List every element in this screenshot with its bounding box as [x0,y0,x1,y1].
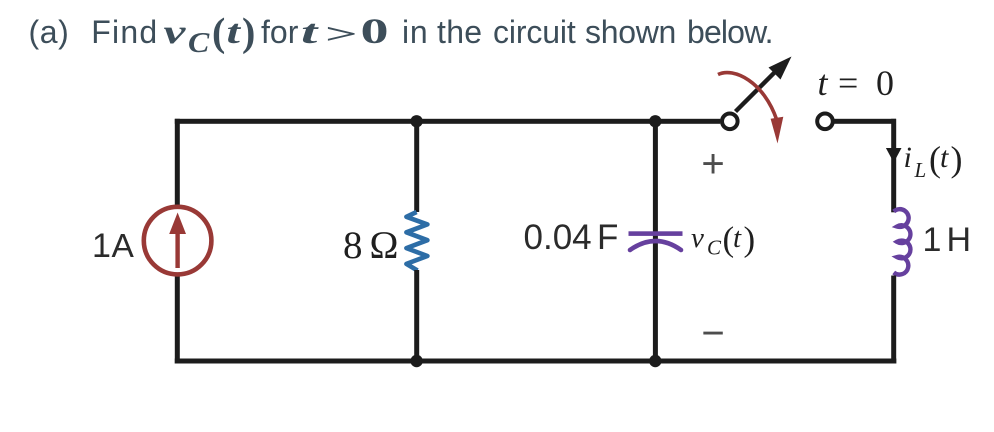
wire: left vertical lower (current source to bottom wire) [175,276,180,364]
svg-text:−: − [701,312,724,356]
junction dot bottom-left (resistor bottom) [410,355,422,367]
inductor L coil [894,209,911,274]
svg-text:t: t [301,13,319,51]
svg-text:1A: 1A [92,227,135,265]
switch lever [736,68,780,112]
current source I1 circle [144,207,212,275]
wire: left vertical upper (top wire to current source) [175,119,180,206]
junction dot top-right (capacitor top) [649,115,661,127]
svg-text:t: t [227,14,242,51]
switch right terminal circle [817,114,833,130]
wire: resistor branch top [414,121,419,212]
junction dot bottom-right (capacitor bottom) [649,355,661,367]
wire: bottom horizontal [175,359,897,364]
svg-text:0: 0 [361,11,389,51]
svg-text:): ) [242,10,255,55]
switch red closing arc [718,73,777,120]
switch lever arrowhead [769,57,792,80]
wire: right branch top horizontal [833,119,896,124]
svg-text:>: > [325,18,358,49]
wire: top horizontal [175,119,721,124]
svg-text:8Ω: 8Ω [343,224,399,267]
svg-text:+: + [701,142,724,186]
resistor R 8ohm zigzag [406,212,427,271]
svg-text:(: ( [212,10,225,55]
wire: resistor branch bottom [414,270,419,362]
title text [29,10,773,59]
switch red arrowhead [771,117,784,144]
junction dot top-left (resistor top) [410,115,422,127]
svg-text:v: v [164,13,187,51]
svg-text:0.04F: 0.04F [524,218,619,257]
svg-text:1H: 1H [923,221,972,259]
capacitor C bottom curved plate [630,241,681,250]
svg-text:vC(t): vC(t) [691,220,755,260]
wire: right branch vertical upper [891,119,896,213]
svg-text:C: C [188,26,210,58]
capacitor C top plate [629,231,683,236]
iL current arrowhead [886,148,902,163]
wire: capacitor branch vertical [653,121,658,361]
wire: right branch vertical lower [891,276,896,364]
current source arrow [169,213,186,269]
switch left terminal circle [722,114,738,130]
